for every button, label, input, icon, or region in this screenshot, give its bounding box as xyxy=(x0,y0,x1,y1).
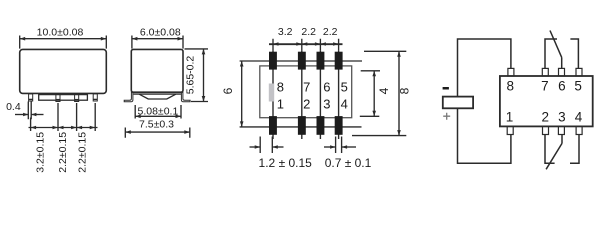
svg-text:1: 1 xyxy=(506,109,514,124)
svg-text:8: 8 xyxy=(277,80,284,95)
dimension 5.65 line xyxy=(203,49,205,102)
svg-text:3.2±0.15: 3.2±0.15 xyxy=(35,132,47,173)
relay body (side) xyxy=(131,49,183,92)
svg-text:3.2: 3.2 xyxy=(278,26,293,38)
pad 8 xyxy=(269,52,277,70)
svg-text:2.2±0.15: 2.2±0.15 xyxy=(57,132,69,173)
svg-text:5.65-0.2: 5.65-0.2 xyxy=(184,56,196,95)
contact: pin 5 fixed (NO) xyxy=(570,39,578,69)
chained dimension line 3.2/2.2/2.2 xyxy=(29,127,98,129)
svg-text:1: 1 xyxy=(277,97,284,112)
pad 5 xyxy=(335,52,343,70)
pin 2 (front) xyxy=(56,94,60,102)
relay base block (front) xyxy=(39,95,88,101)
relay box (schematic) xyxy=(500,76,593,126)
svg-text:7: 7 xyxy=(541,79,549,94)
terminal 4 xyxy=(576,126,582,134)
svg-text:3: 3 xyxy=(558,109,566,124)
dimension 1.2 ticks (pad 1 edges) xyxy=(260,137,272,154)
svg-text:8: 8 xyxy=(506,79,514,94)
column line 8/1 xyxy=(272,50,274,139)
dimension 8 line xyxy=(398,51,400,135)
terminal 2 xyxy=(543,126,549,134)
plus sign xyxy=(443,113,450,120)
wire coil loop top xyxy=(458,39,511,97)
contact: pin 2 fixed (NC, bottom) xyxy=(545,135,555,164)
terminal 3 xyxy=(558,126,564,134)
dimension 5.65 extension lines xyxy=(185,49,209,102)
pad 6 xyxy=(317,52,325,70)
svg-text:7.5±0.3: 7.5±0.3 xyxy=(139,119,174,131)
svg-text:10.0±0.08: 10.0±0.08 xyxy=(37,26,84,38)
dimension 5.08 extension bars xyxy=(135,105,181,119)
dimension 6 line (left) xyxy=(241,61,243,127)
dimension 8 extension lines xyxy=(352,51,406,135)
svg-text:2.2: 2.2 xyxy=(301,26,316,38)
terminal 8 xyxy=(508,68,514,76)
contact: pin 7 fixed (NC) xyxy=(545,39,557,69)
column line 6/3 xyxy=(319,50,321,139)
svg-text:6: 6 xyxy=(323,80,330,95)
svg-text:5.08±0.1: 5.08±0.1 xyxy=(138,105,179,117)
terminal 7 xyxy=(542,68,548,76)
base trapezoid bump xyxy=(139,94,176,99)
pin 6 stub xyxy=(561,57,563,69)
dimension 5.08 line xyxy=(135,115,181,117)
svg-text:5: 5 xyxy=(341,80,348,95)
wire coil loop bottom xyxy=(458,108,511,163)
pad row centre extension line (bottom, y=126.9) xyxy=(240,126,362,128)
svg-text:0.7 ± 0.1: 0.7 ± 0.1 xyxy=(325,156,372,170)
dimension 0.4 leader arrows xyxy=(15,114,28,116)
dimension 6.0 extension lines xyxy=(132,36,183,49)
dimension 4 line xyxy=(373,71,375,117)
polarity grey bar xyxy=(269,84,274,102)
coil box xyxy=(443,97,473,109)
dimension 7.5 extension bars xyxy=(125,128,190,138)
pad 7 xyxy=(298,52,306,70)
dimension 0.7 arrows xyxy=(324,146,336,148)
svg-text:2.2: 2.2 xyxy=(323,26,338,38)
terminal 1 xyxy=(507,126,513,134)
minus sign xyxy=(443,87,449,90)
base plate line (side) xyxy=(133,93,181,95)
dimension 10.0 line xyxy=(20,38,107,40)
pad 4 xyxy=(335,116,343,135)
svg-text:3: 3 xyxy=(323,97,330,112)
pad 1 xyxy=(269,116,277,135)
svg-text:6.0±0.08: 6.0±0.08 xyxy=(140,26,181,38)
svg-text:1.2 ± 0.15: 1.2 ± 0.15 xyxy=(259,156,313,170)
svg-text:4: 4 xyxy=(575,109,583,124)
dimension 0.7 ticks xyxy=(336,137,342,154)
dimension 1.2 arrows xyxy=(250,146,261,148)
dimension 6.0 line xyxy=(132,38,183,40)
contact blade bottom (common 3) xyxy=(546,143,562,169)
dimension 0.4 extension lines (pin 1 edges) xyxy=(28,102,31,120)
pin 3 (front) xyxy=(75,94,79,102)
dimension 10.0 extension lines xyxy=(20,36,107,49)
relay body (front) xyxy=(20,49,107,93)
column line 5/4 xyxy=(338,50,340,139)
gull-wing pin left (side) xyxy=(124,92,133,101)
pad 3 xyxy=(317,116,325,135)
svg-text:6: 6 xyxy=(221,87,235,94)
pad 2 xyxy=(298,116,306,135)
terminal 6 xyxy=(559,68,565,76)
svg-text:8: 8 xyxy=(398,87,412,94)
footprint outline xyxy=(260,66,352,118)
contact blade top (common 6) xyxy=(550,31,562,58)
chained dim ticks xyxy=(273,39,339,51)
dimension 7.5 line xyxy=(125,131,190,133)
terminal 5 xyxy=(576,68,582,76)
gull-wing pin right (side) xyxy=(181,92,190,101)
contact: pin 4 fixed (NO, bottom) xyxy=(570,135,579,164)
svg-text:4: 4 xyxy=(377,87,391,94)
chained dim line (top) xyxy=(269,43,343,45)
pin 3 stub xyxy=(561,135,563,144)
dimension 4 extension T-bars xyxy=(360,71,380,117)
pad row centre extension line (top, y=61) xyxy=(240,60,362,62)
svg-text:2: 2 xyxy=(303,97,310,112)
svg-text:6: 6 xyxy=(558,79,566,94)
pin 1 (front) xyxy=(29,94,33,101)
svg-text:0.4: 0.4 xyxy=(6,101,21,113)
svg-text:7: 7 xyxy=(303,80,310,95)
svg-text:4: 4 xyxy=(341,97,348,112)
pin 4 (front) xyxy=(93,94,97,101)
svg-text:5: 5 xyxy=(574,79,582,94)
svg-text:2: 2 xyxy=(542,109,550,124)
svg-text:2.2±0.15: 2.2±0.15 xyxy=(77,132,89,173)
chained dim extension lines below pins xyxy=(31,103,96,131)
column line 7/2 xyxy=(301,50,303,139)
